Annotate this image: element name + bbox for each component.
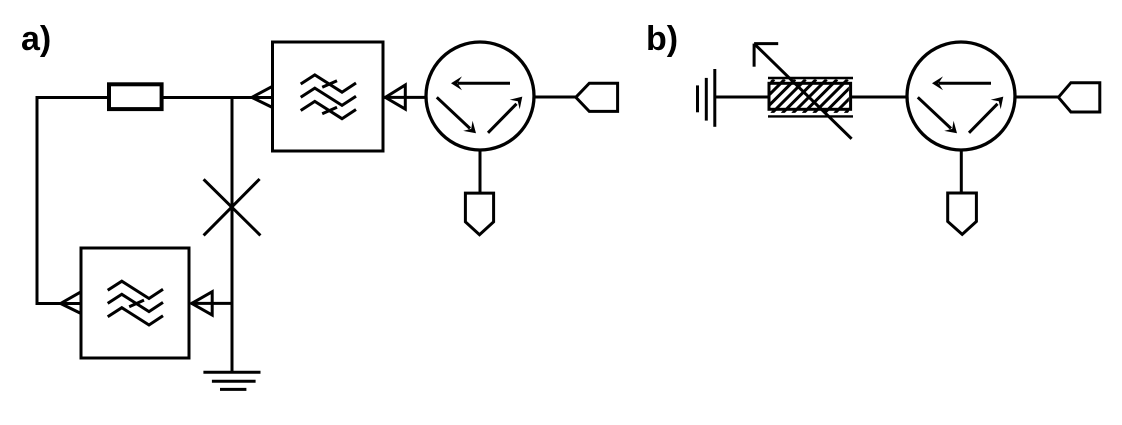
ground a bbox=[203, 371, 260, 374]
svg-text:b): b) bbox=[646, 20, 678, 58]
wire: circulator b to right port bbox=[1015, 96, 1059, 99]
variable-arrow through load bbox=[755, 45, 852, 139]
port pentagon bottom a bbox=[465, 193, 493, 235]
wire: feedback line into band-stop filter (left side) bbox=[36, 302, 82, 305]
arrow triangle (into junction, left-pointing, on band-pass filter input) bbox=[252, 86, 273, 107]
circulator a arrows bbox=[437, 76, 523, 133]
variable load bottom line bbox=[768, 115, 853, 117]
band-stop filter wave 1 (plain) bbox=[108, 281, 163, 298]
circulator a (circle) bbox=[426, 42, 534, 150]
arrow triangle (left-pointing, between filter and circulator) bbox=[385, 85, 405, 109]
arrow triangle (left-pointing, at band-stop filter input) bbox=[192, 292, 213, 315]
circulator b (circle) bbox=[907, 42, 1015, 150]
band-pass filter wave 1 (crossed) bbox=[301, 75, 356, 92]
svg-text:a): a) bbox=[21, 20, 51, 58]
wire: filter to circulator bbox=[383, 96, 427, 99]
variable matched load (hatched box) bbox=[740, 78, 879, 116]
wire: branch to band-stop filter (right side) bbox=[191, 302, 234, 305]
band-pass filter box BP bbox=[273, 42, 384, 151]
resistor R (rectangle) bbox=[109, 84, 162, 109]
wire: left vertical feedback line bbox=[36, 96, 39, 305]
band-stop filter wave 3 (plain) bbox=[108, 308, 163, 325]
wire: vertical line from junction down through junction X bbox=[231, 96, 234, 372]
variable load top line bbox=[768, 77, 853, 79]
band-stop filter wave 2 (crossed) bbox=[108, 294, 163, 311]
wire: ground b to variable load bbox=[715, 96, 770, 99]
ground b (rotated) bbox=[696, 85, 699, 112]
wire: circulator a to right port bbox=[534, 96, 576, 99]
wire: top-left horizontal to resistor bbox=[36, 96, 108, 99]
wire: variable load to circulator b bbox=[850, 96, 907, 99]
wire: circulator a to bottom port bbox=[479, 150, 482, 193]
Josephson junction X bbox=[204, 179, 261, 235]
band-stop filter box BS bbox=[81, 248, 189, 358]
port pentagon right a bbox=[576, 83, 618, 111]
port pentagon right b bbox=[1058, 83, 1099, 112]
wire: circulator b to bottom port bbox=[960, 150, 963, 193]
port pentagon bottom b bbox=[948, 193, 977, 234]
band-pass filter wave 2 (plain) bbox=[301, 88, 356, 105]
band-pass filter wave 3 (crossed) bbox=[301, 101, 356, 118]
circulator b arrows bbox=[918, 76, 1004, 133]
arrow triangle (left-pointing, at band-stop filter output) bbox=[61, 292, 81, 314]
wire: resistor to junction and filter bbox=[163, 96, 273, 99]
